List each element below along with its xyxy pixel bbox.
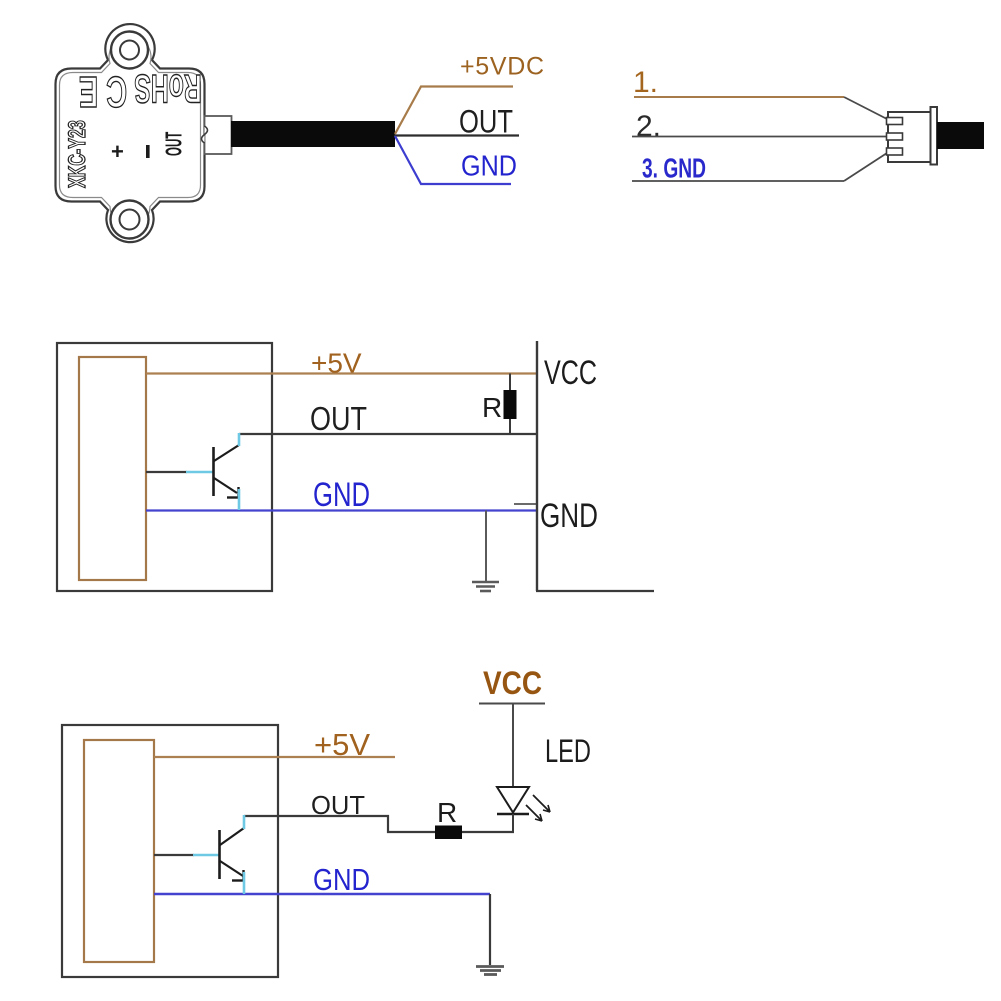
connector flange	[931, 107, 938, 165]
svg-text:+5VDC: +5VDC	[460, 53, 544, 81]
LED lead down	[512, 814, 514, 832]
connector pin 1	[887, 118, 903, 125]
top mounting hole	[111, 32, 148, 69]
wire VCC to LED	[512, 704, 514, 788]
svg-text:+5V: +5V	[314, 727, 370, 762]
resistor R1 pull-up wire	[509, 374, 511, 435]
svg-text:GND: GND	[540, 497, 598, 535]
svg-text:R: R	[437, 797, 457, 828]
svg-text:2.: 2.	[636, 110, 661, 143]
svg-text:OUT: OUT	[311, 790, 365, 820]
connector J1 housing	[888, 112, 931, 162]
wire GND (blue)	[154, 893, 490, 895]
strain relief notch	[202, 126, 208, 143]
sensor module inner contour line	[60, 36, 201, 226]
transistor Q1 base bar	[212, 447, 215, 496]
transistor Q1 emitter with arrow	[214, 478, 237, 493]
ground symbol	[472, 582, 499, 591]
svg-text:VCC: VCC	[483, 665, 542, 701]
svg-text:VCC: VCC	[544, 354, 597, 392]
sensor inner block (brown)	[79, 357, 146, 580]
resistor R1 body	[504, 390, 517, 419]
svg-text:R: R	[482, 392, 502, 423]
wire OUT with step	[244, 816, 435, 832]
GND stub tick	[514, 503, 537, 505]
svg-text:OUT: OUT	[161, 132, 186, 156]
wire +5V (brown)	[146, 372, 537, 374]
resistor R2 body	[435, 826, 462, 840]
transistor Q2 base wire	[154, 854, 194, 856]
transistor Q1 base wire	[146, 471, 187, 473]
host device bracket bottom	[536, 590, 654, 592]
ground wire stub	[485, 511, 487, 583]
transistor Q1 collector	[214, 445, 239, 461]
wire resistor to LED	[462, 831, 514, 833]
svg-text:GND: GND	[313, 476, 370, 514]
svg-text:RoHS: RoHS	[134, 65, 201, 109]
svg-text:XKC-Y23: XKC-Y23	[65, 120, 91, 188]
svg-text:OUT: OUT	[310, 400, 367, 437]
transistor Q2 collector	[220, 828, 244, 845]
cable stub connector on module	[205, 116, 232, 154]
wire GND (blue)	[395, 136, 511, 184]
connector pin 3	[887, 148, 903, 155]
ground wire stub	[489, 894, 491, 965]
VCC bar	[479, 703, 545, 705]
connector pin 2	[887, 133, 903, 140]
sensor outer box	[57, 343, 272, 591]
cable (black)	[231, 121, 395, 147]
connector cable (black)	[937, 122, 984, 149]
wire OUT (black)	[394, 134, 519, 136]
sensor inner block (brown)	[84, 740, 154, 962]
sensor outer box	[62, 725, 278, 977]
host device bracket vertical	[536, 341, 538, 591]
svg-text:LED: LED	[545, 733, 591, 769]
sensor module XKC-Y23 body outline	[56, 24, 205, 242]
svg-text:3. GND: 3. GND	[642, 153, 706, 184]
ground symbol	[476, 967, 504, 975]
LED light arrows	[526, 795, 550, 821]
wire OUT	[239, 433, 537, 435]
wire GND (blue)	[146, 509, 537, 511]
LED cathode bar	[497, 813, 529, 815]
svg-text:+5V: +5V	[311, 348, 362, 379]
svg-text:GND: GND	[313, 862, 370, 897]
svg-text:CE: CE	[71, 68, 127, 118]
transistor Q2 base bar	[218, 830, 221, 879]
svg-text:1.: 1.	[633, 66, 658, 99]
svg-text:OUT: OUT	[459, 104, 513, 140]
transistor Q2 emitter with arrow	[220, 861, 243, 876]
bottom mounting hole	[111, 201, 149, 239]
LED D1 triangle	[497, 787, 529, 813]
wire +5V (brown)	[154, 756, 395, 758]
svg-text:+: +	[111, 139, 124, 164]
svg-text:GND: GND	[461, 151, 517, 183]
wire +5VDC (brown)	[395, 87, 513, 135]
